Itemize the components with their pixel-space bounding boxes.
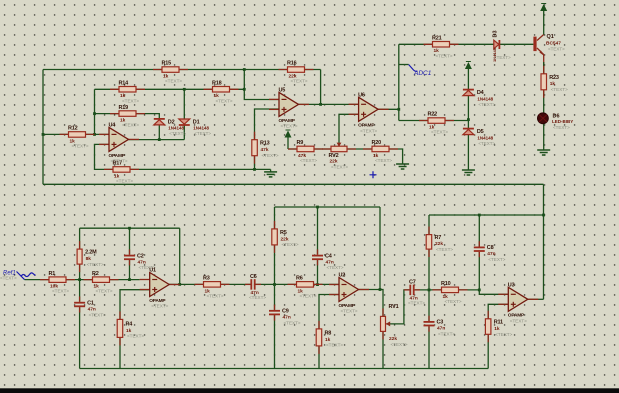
- wire R21 to Q1 base: [399, 43, 534, 45]
- svg-text:<TEXT>: <TEXT>: [111, 159, 128, 164]
- wire Q1 emitter to R23: [537, 48, 544, 74]
- wire U6 non-inverting to RV2 wiper: [339, 114, 359, 143]
- svg-text:D4: D4: [477, 90, 485, 96]
- svg-text:<TEXT>: <TEXT>: [72, 144, 89, 149]
- wire D1 cathode drop: [183, 125, 185, 140]
- svg-text:R12: R12: [68, 126, 78, 132]
- svg-text:U5: U5: [279, 88, 286, 94]
- svg-text:<TEXT>: <TEXT>: [52, 289, 69, 294]
- node R18 junction: [243, 88, 246, 91]
- transistor Q1: [533, 37, 543, 56]
- svg-text:LED-BIBY: LED-BIBY: [552, 119, 573, 124]
- svg-text:<TEXT>: <TEXT>: [478, 141, 495, 146]
- svg-text:D1: D1: [193, 120, 200, 126]
- capacitor C8: [474, 241, 485, 257]
- wire U3 non-inverting to R11: [488, 304, 508, 319]
- svg-text:D3: D3: [493, 30, 499, 37]
- svg-text:<TEXT>: <TEXT>: [488, 257, 505, 262]
- svg-text:<TEXT>: <TEXT>: [96, 289, 113, 294]
- svg-text:<TEXT>: <TEXT>: [375, 158, 392, 163]
- capacitor C7: [404, 285, 420, 296]
- svg-text:<TEXT>: <TEXT>: [553, 125, 570, 130]
- wire R12 input row: [43, 133, 109, 135]
- diode D3: [494, 40, 500, 49]
- wire R23 to D6: [543, 90, 545, 113]
- svg-text:R10: R10: [441, 281, 451, 287]
- node U5 output junction: [319, 103, 322, 106]
- ground D5: [462, 168, 475, 176]
- origin marker: [370, 171, 377, 178]
- resistor R18: [204, 87, 239, 93]
- wire C2 branch: [129, 228, 131, 254]
- svg-text:U2: U2: [339, 273, 346, 279]
- resistor R20: [363, 146, 398, 152]
- svg-text:U1: U1: [149, 268, 156, 274]
- svg-text:ADC1: ADC1: [413, 70, 432, 77]
- input signal label: [0, 271, 36, 281]
- svg-text:R18: R18: [212, 81, 222, 87]
- node U2 output junction: [379, 288, 382, 291]
- svg-text:R5: R5: [280, 230, 287, 236]
- wire U5 output to U6: [299, 103, 359, 105]
- ground D6: [537, 148, 550, 156]
- op-amp U4: [99, 127, 139, 151]
- svg-text:<TEXT>: <TEXT>: [341, 309, 358, 314]
- wire R9 RV2 R20 row: [288, 149, 403, 162]
- wire left vertical bus: [42, 70, 44, 185]
- svg-text:<TEXT>: <TEXT>: [391, 342, 408, 347]
- wire feedback top rail: [43, 69, 321, 71]
- capacitor C2: [124, 249, 135, 265]
- wire U2 top rail: [275, 206, 381, 208]
- svg-text:RV2: RV2: [329, 153, 339, 159]
- node R13 ground junction: [253, 168, 256, 171]
- svg-text:<TEXT>: <TEXT>: [165, 79, 182, 84]
- svg-text:U4: U4: [109, 123, 117, 129]
- wire U6 output: [378, 108, 399, 110]
- svg-text:C3: C3: [437, 320, 444, 326]
- resistor R10: [433, 287, 468, 293]
- svg-text:<TEXT>: <TEXT>: [169, 131, 186, 136]
- svg-text:<TEXT>: <TEXT>: [360, 128, 377, 133]
- wire R7 C3 chain: [428, 215, 430, 369]
- svg-text:C6: C6: [250, 274, 257, 280]
- resistor R7: [426, 227, 432, 257]
- wire C6 to U2 inverting: [255, 283, 339, 285]
- svg-text:R16: R16: [287, 61, 297, 67]
- resistor 2.2M: [77, 241, 82, 272]
- wire long feedback bus: [43, 183, 544, 185]
- capacitor C4: [312, 249, 323, 265]
- svg-text:R11: R11: [494, 320, 503, 326]
- resistor R1: [40, 277, 75, 283]
- svg-text:R22: R22: [428, 112, 438, 118]
- svg-text:<TEXT>: <TEXT>: [291, 79, 308, 84]
- node diode chain junction: [467, 118, 470, 121]
- svg-text:<TEXT>: <TEXT>: [151, 304, 168, 309]
- wire U3 output: [529, 298, 544, 300]
- node R5 C9 junction: [273, 283, 276, 286]
- node input RC junction: [78, 278, 81, 281]
- node R19 tap: [93, 112, 96, 115]
- wire C8 chain: [478, 215, 480, 290]
- svg-text:2.2M: 2.2M: [85, 250, 97, 256]
- svg-text:<TEXT>: <TEXT>: [548, 47, 565, 52]
- wire U4 feedback vertical: [94, 89, 96, 134]
- ground R20 net: [396, 162, 409, 170]
- op-amp U6: [349, 97, 389, 121]
- svg-text:<TEXT>: <TEXT>: [281, 124, 298, 129]
- node C4 junction: [316, 283, 319, 286]
- svg-text:D5: D5: [477, 129, 484, 135]
- wire U6 feedback vertical: [398, 44, 400, 120]
- node R7 C3 junction: [428, 289, 431, 292]
- node C8 rail junction: [478, 214, 481, 217]
- wire U2 output to RV1: [359, 290, 384, 317]
- svg-text:<TEXT>: <TEXT>: [207, 294, 224, 299]
- svg-text:R19: R19: [119, 105, 129, 111]
- svg-text:C9: C9: [282, 309, 289, 315]
- node C2 junction: [128, 278, 131, 281]
- wire C4 branch: [317, 207, 319, 255]
- svg-text:R2: R2: [92, 271, 99, 277]
- svg-text:<TEXT>: <TEXT>: [478, 102, 495, 107]
- wire U2 feedback drop: [379, 207, 381, 290]
- resistor R5: [272, 221, 278, 253]
- resistor R15: [153, 67, 188, 73]
- op-amp U3: [498, 287, 538, 311]
- svg-text:R1: R1: [49, 271, 56, 277]
- wire right feedback vertical: [543, 184, 545, 299]
- svg-text:<TEXT>: <TEXT>: [249, 295, 266, 300]
- resistor R8: [316, 321, 322, 354]
- svg-text:<TEXT>: <TEXT>: [300, 294, 317, 299]
- svg-text:R21: R21: [432, 36, 442, 42]
- svg-text:<TEXT>: <TEXT>: [331, 164, 348, 169]
- svg-text:<TEXT>: <TEXT>: [300, 158, 317, 163]
- svg-text:R7: R7: [435, 235, 442, 241]
- wire R14-R18 row: [95, 88, 245, 90]
- wire U2 U3 top rail: [429, 214, 544, 216]
- wire C7 to R10 to C8 node: [415, 289, 480, 291]
- svg-text:R8: R8: [325, 330, 332, 336]
- svg-text:<TEXT>: <TEXT>: [282, 242, 299, 247]
- svg-text:<TEXT>: <TEXT>: [216, 98, 233, 103]
- wire U5 inverting input: [244, 70, 279, 100]
- diode D5: [463, 129, 474, 135]
- op-amp U1: [140, 273, 180, 297]
- svg-text:R3: R3: [203, 276, 210, 282]
- resistor R11: [485, 311, 491, 343]
- resistor R9: [288, 146, 323, 152]
- wire U4 output to diodes: [129, 139, 185, 141]
- node C2 rail junction: [128, 227, 131, 230]
- wire jog to U3 inverting: [479, 290, 508, 294]
- svg-text:C7: C7: [409, 279, 416, 285]
- resistor R13: [252, 132, 257, 164]
- wire U4 non-inverting to R17 to ground net: [95, 144, 271, 169]
- wire U1 top rail: [80, 227, 180, 229]
- svg-text:<TEXT>: <TEXT>: [438, 332, 455, 337]
- svg-text:<TEXT>: <TEXT>: [87, 262, 104, 267]
- power terminal R9 net: [285, 130, 292, 138]
- svg-text:C8: C8: [487, 245, 494, 251]
- resistor R17: [104, 167, 139, 173]
- svg-text:C4: C4: [325, 253, 333, 259]
- svg-text:<TEXT>: <TEXT>: [122, 98, 139, 103]
- node U4 inverting junction: [93, 133, 96, 136]
- ground R13 net: [264, 169, 277, 177]
- svg-text:<TEXT>: <TEXT>: [0, 276, 17, 281]
- wire U2 non-inverting to R8: [319, 295, 339, 329]
- wire R19 row to D2: [95, 114, 160, 119]
- svg-text:BC547: BC547: [546, 40, 561, 46]
- capacitor C6: [245, 279, 261, 290]
- svg-text:<TEXT>: <TEXT>: [445, 299, 462, 304]
- wire D4 D5 chain: [467, 69, 469, 168]
- resistor R19: [110, 111, 145, 117]
- svg-text:R20: R20: [372, 140, 382, 146]
- svg-text:<TEXT>: <TEXT>: [127, 334, 144, 339]
- potentiometer RV1: [381, 308, 386, 339]
- resistor R14: [110, 87, 145, 93]
- op-amp U5: [269, 92, 309, 116]
- svg-text:R23: R23: [549, 75, 559, 81]
- power terminal Q1 collector: [540, 4, 547, 12]
- resistor R22: [419, 118, 454, 124]
- capacitor C9: [269, 305, 280, 321]
- resistor R21: [424, 42, 459, 48]
- node D2 output junction: [158, 138, 161, 141]
- wire feedback drop to U5 output: [320, 70, 322, 105]
- wire R5 C9 chain: [274, 207, 276, 310]
- node U3 feedback junction: [542, 214, 545, 217]
- wire power stub R9: [287, 137, 289, 149]
- svg-text:<TEXT>: <TEXT>: [495, 332, 512, 337]
- wire R13 bottom: [254, 156, 256, 170]
- wire D6 to ground: [543, 124, 545, 148]
- net label ADC1: [409, 65, 432, 78]
- svg-text:1N4148: 1N4148: [193, 126, 209, 131]
- wire input row to U1: [25, 279, 140, 281]
- svg-text:<TEXT>: <TEXT>: [284, 320, 301, 325]
- resistor R4: [117, 311, 123, 345]
- svg-text:1N4148: 1N4148: [477, 96, 493, 101]
- potentiometer RV2: [322, 146, 356, 152]
- wire RV1 wiper to C7: [388, 290, 409, 324]
- svg-text:RV1: RV1: [389, 304, 399, 310]
- svg-text:R15: R15: [162, 61, 172, 67]
- svg-text:C2: C2: [137, 253, 144, 259]
- svg-text:<TEXT>: <TEXT>: [431, 130, 448, 135]
- svg-text:R6: R6: [296, 276, 303, 282]
- wire U1 output row to C6: [169, 283, 252, 285]
- svg-text:<TEXT>: <TEXT>: [510, 318, 527, 323]
- resistor R3: [195, 282, 230, 288]
- svg-text:1N4148: 1N4148: [168, 126, 184, 131]
- node C8 junction: [478, 289, 481, 292]
- diode D4: [463, 90, 474, 96]
- svg-text:U6: U6: [358, 93, 365, 99]
- svg-text:<TEXT>: <TEXT>: [408, 301, 425, 306]
- svg-text:<TEXT>: <TEXT>: [262, 153, 279, 158]
- node C4 rail junction: [316, 206, 319, 209]
- svg-text:1N4148: 1N4148: [477, 135, 493, 140]
- diode D1: [179, 119, 190, 125]
- wire U5 non-inverting to R13: [255, 109, 280, 140]
- svg-text:R14: R14: [119, 81, 130, 87]
- wire label stub: [399, 64, 409, 66]
- svg-text:<TEXT>: <TEXT>: [551, 87, 568, 92]
- node D1 top junction: [183, 88, 186, 91]
- wire Q1 collector: [537, 35, 544, 41]
- node U1 output junction: [178, 283, 181, 286]
- svg-text:R9: R9: [297, 140, 304, 146]
- wire D2 cathode drop: [158, 126, 160, 140]
- LED D6: [538, 113, 549, 124]
- svg-text:<TEXT>: <TEXT>: [116, 179, 133, 184]
- svg-text:<TEXT>: <TEXT>: [327, 265, 344, 270]
- svg-text:<TEXT>: <TEXT>: [194, 131, 211, 136]
- wire U1 non-inverting to R4: [120, 290, 150, 320]
- resistor R6: [288, 282, 323, 288]
- svg-text:D2: D2: [168, 119, 175, 125]
- svg-text:<TEXT>: <TEXT>: [436, 53, 453, 58]
- svg-text:Q1: Q1: [547, 34, 554, 40]
- svg-text:<TEXT>: <TEXT>: [326, 343, 343, 348]
- resistor R12: [60, 132, 95, 138]
- op-amp U2: [329, 278, 369, 302]
- capacitor C1: [74, 297, 85, 313]
- svg-text:R4: R4: [126, 321, 134, 327]
- diode D2: [154, 119, 165, 125]
- resistor R23: [541, 66, 547, 98]
- svg-text:C1: C1: [87, 301, 94, 307]
- svg-text:<TEXT>: <TEXT>: [494, 55, 511, 60]
- node top rail tap: [243, 68, 246, 71]
- resistor R2: [84, 277, 119, 283]
- svg-text:<TEXT>: <TEXT>: [436, 247, 453, 252]
- svg-text:<TEXT>: <TEXT>: [89, 312, 106, 317]
- svg-text:R13: R13: [260, 141, 270, 147]
- node R12 tap on left bus: [42, 133, 45, 136]
- wire U1 feedback vertical: [179, 228, 181, 284]
- power terminal diode chain: [465, 62, 472, 70]
- node U6 output junction: [397, 108, 400, 111]
- wire 2.2M / C1 chain: [79, 228, 81, 302]
- svg-text:<TEXT>: <TEXT>: [122, 123, 139, 128]
- capacitor C3: [424, 316, 435, 332]
- resistor R16: [279, 67, 314, 73]
- wire D1 anode drop: [183, 89, 185, 119]
- svg-text:U3: U3: [508, 283, 515, 289]
- wire bottom rail: [80, 368, 489, 370]
- wire R22 row: [399, 120, 469, 122]
